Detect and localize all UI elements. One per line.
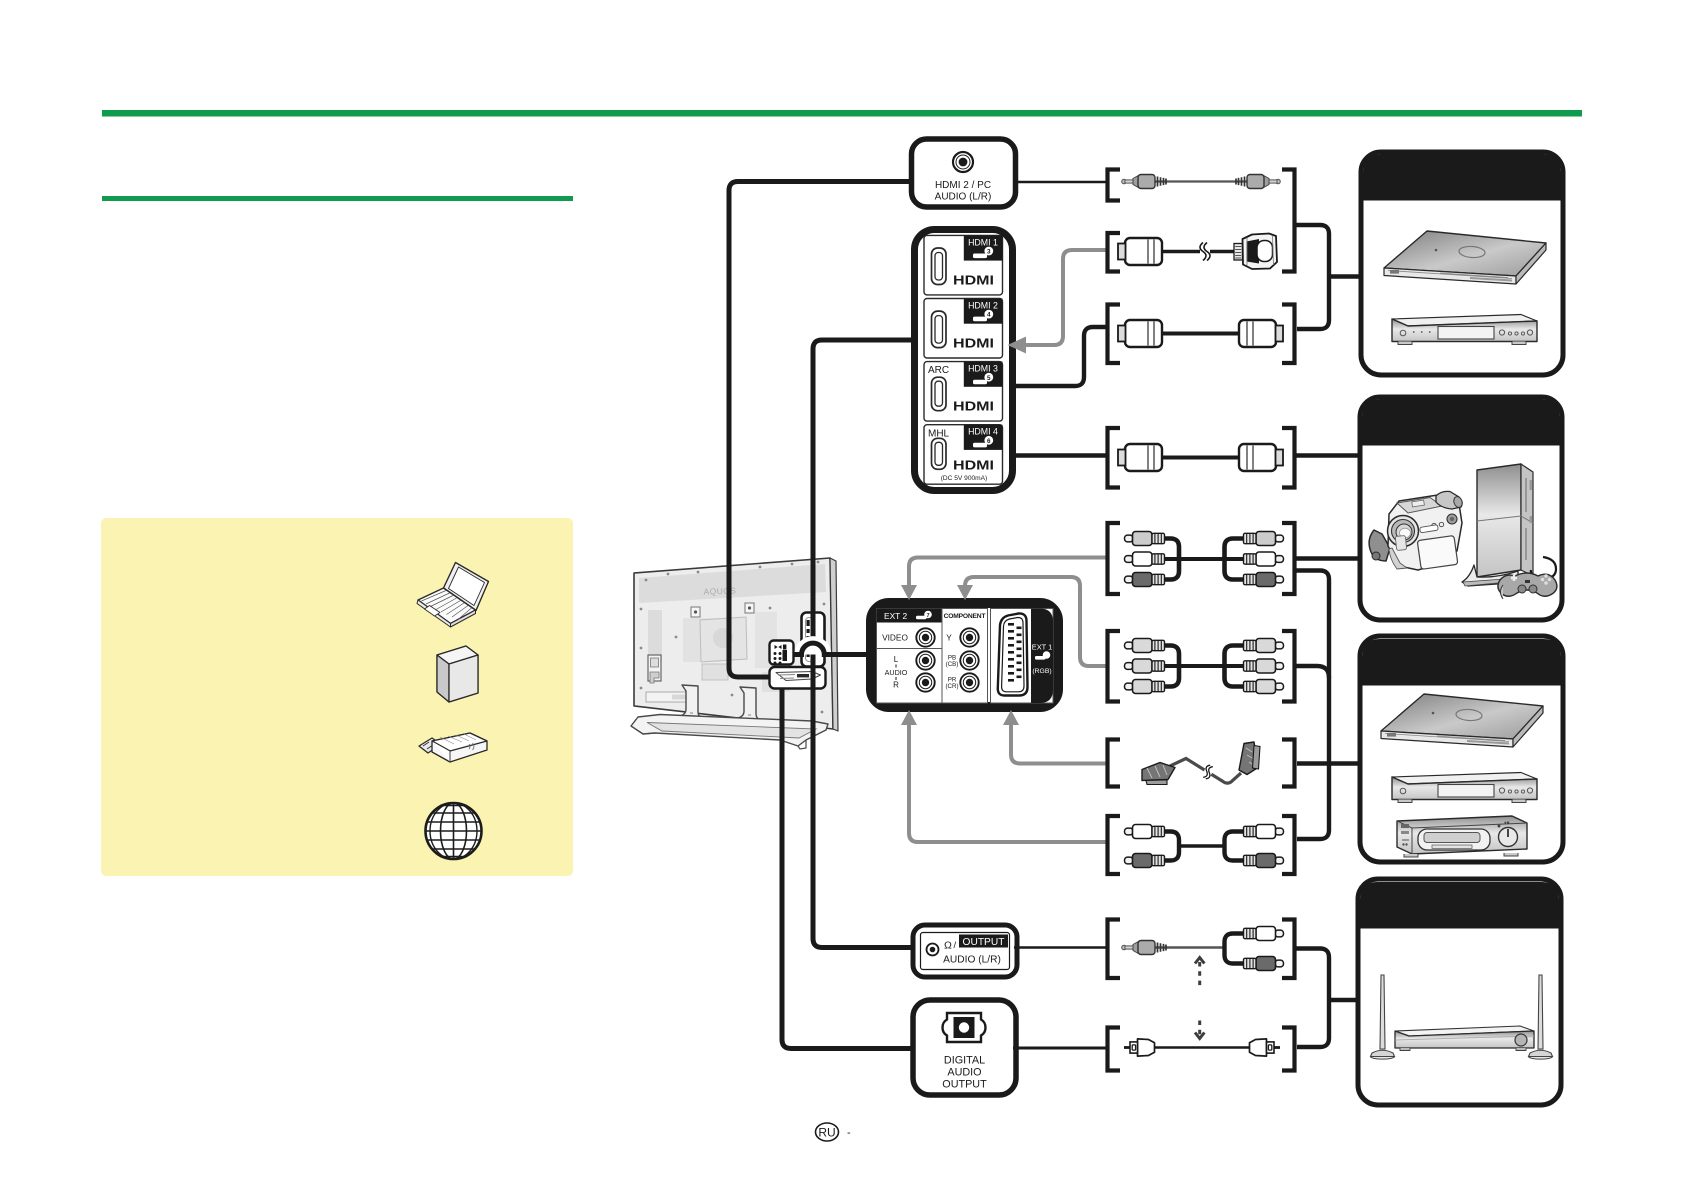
wire HDMI4 to cable 4 <box>1012 453 1107 457</box>
cable7: SCART cable <box>1142 742 1260 785</box>
svg-text:HDMI 2 / PC: HDMI 2 / PC <box>935 180 991 191</box>
bracket cable6 right <box>1282 631 1295 702</box>
gray wire cable6 to COMPONENT arrow <box>965 577 1107 666</box>
device box 2: game console / camcorder <box>1360 397 1562 620</box>
PB jack <box>960 651 978 669</box>
wall mount holes <box>691 607 700 617</box>
bracket cable9 left <box>1108 920 1121 979</box>
cable4: HDMI cable <box>1118 444 1283 471</box>
cable6: component video cable <box>1125 639 1284 694</box>
bracket cable4 right <box>1282 428 1295 488</box>
svg-text:AUDIO: AUDIO <box>885 668 908 677</box>
note box (yellow) <box>101 518 573 876</box>
green section rule <box>102 196 573 201</box>
game console <box>1462 464 1533 586</box>
VIDEO jack <box>916 628 934 646</box>
wire trunk to theatre box <box>1329 998 1358 1002</box>
wire cable6 into trunk <box>1297 666 1330 678</box>
svg-text:AUDIO (L/R): AUDIO (L/R) <box>935 192 992 203</box>
svg-text:L: L <box>894 655 899 664</box>
svg-text:VIDEO: VIDEO <box>882 633 908 643</box>
HDMI 2 port <box>924 299 1003 359</box>
OUTPUT audio terminal panel <box>913 925 1017 977</box>
AC inlet <box>648 655 661 681</box>
bottom ports callout <box>770 667 826 689</box>
svg-text:HDMI 2: HDMI 2 <box>968 300 998 310</box>
side ports callout <box>802 613 825 667</box>
RU page mark <box>816 1123 852 1141</box>
bracket cable1 left <box>1108 170 1121 201</box>
globe icon <box>426 803 482 859</box>
wire HDMI panel to TV side ports <box>813 340 916 948</box>
DVD player <box>1392 315 1537 345</box>
HDMI 4 (MHL) port <box>924 425 1003 485</box>
gray wire cable5 to EXT2 arrow <box>909 558 1107 586</box>
svg-text:HDMI: HDMI <box>953 336 994 351</box>
svg-text:●■: ●■ <box>1504 820 1510 825</box>
TV rear view <box>631 558 838 749</box>
left speaker <box>1371 975 1395 1059</box>
bracket cable6 left <box>1108 631 1121 702</box>
bracket cable5 left <box>1108 523 1121 594</box>
wire cable4 to game box <box>1297 453 1362 457</box>
game controller <box>1498 557 1557 599</box>
svg-text:HDMI: HDMI <box>953 273 994 288</box>
control buttons callout <box>770 641 794 665</box>
dashed swap arrow between cable9 and cable10 <box>1195 958 1204 1039</box>
bracket cable3 right <box>1282 305 1295 364</box>
gray wire cable8 to EXT2 bottom arrow <box>909 725 1107 842</box>
HDMI terminals panel <box>915 230 1013 491</box>
EXT1 SCART section <box>991 609 1054 704</box>
wire HDMI2/PC to cable 1 <box>1014 181 1107 183</box>
TV back panel <box>634 558 833 729</box>
COMPONENT section <box>942 609 988 704</box>
audio jack <box>953 152 973 172</box>
svg-text:AUDIO (L/R): AUDIO (L/R) <box>943 955 1001 966</box>
cable brackets <box>1108 170 1295 1071</box>
bracket cable5 right <box>1282 523 1295 594</box>
svg-text:EXT 2: EXT 2 <box>884 611 907 621</box>
cable3: HDMI cable <box>1118 320 1283 347</box>
bracket cable2 left <box>1108 233 1121 272</box>
bracket cables1-2 right (tall) <box>1282 170 1295 272</box>
USB adapter icon <box>419 733 487 762</box>
svg-text:HDMI 1: HDMI 1 <box>968 237 998 247</box>
wire DIGITAL to cable 10 <box>1013 1047 1107 1050</box>
SCART connector <box>998 613 1028 695</box>
wire cable7 to recorder box <box>1297 761 1361 765</box>
HDMI 1 port <box>924 235 1003 295</box>
wire HDMI2/PC panel to TV <box>729 182 911 678</box>
svg-text:EXT 1: EXT 1 <box>1032 643 1052 652</box>
wire trunk to player box <box>1329 274 1361 278</box>
arrow into HDMI2 port <box>1008 337 1027 354</box>
wire TV to EXT panel (with jump-over) <box>802 643 825 654</box>
svg-text:ARC: ARC <box>928 365 949 376</box>
EXT2 / COMPONENT / EXT1 panel <box>871 603 1058 707</box>
svg-text:3: 3 <box>987 249 991 256</box>
wire cable5 to game box <box>1297 556 1362 560</box>
trunk cable5-cable8 <box>1297 571 1330 840</box>
svg-text:R: R <box>893 681 899 690</box>
HDMI 3 (ARC) port <box>924 362 1003 422</box>
TV foot right <box>737 687 760 723</box>
laptop icon <box>417 563 489 628</box>
svg-text:(CR): (CR) <box>945 683 958 690</box>
DVD recorder <box>1392 773 1537 803</box>
svg-text:HDMI 4: HDMI 4 <box>968 427 998 437</box>
svg-text:COMPONENT: COMPONENT <box>944 613 987 620</box>
svg-text:HDMI: HDMI <box>953 399 994 414</box>
EXT2 section <box>877 609 943 704</box>
right speaker <box>1529 975 1553 1059</box>
svg-text:Y: Y <box>946 633 952 643</box>
bracket cable10 left <box>1108 1028 1121 1071</box>
PR jack <box>960 673 978 691</box>
camcorder <box>1369 491 1464 570</box>
bracket cable7 left <box>1108 740 1121 787</box>
blu-ray player (angled) <box>1381 694 1543 747</box>
svg-text:4: 4 <box>987 312 991 319</box>
cable5: composite AV cable <box>1125 532 1284 587</box>
svg-text:5: 5 <box>987 375 991 382</box>
wire HDMI3 to cable 3 <box>1012 327 1107 386</box>
svg-text:/: / <box>954 940 957 951</box>
gray wire cable7 to EXT1 arrow <box>1011 725 1107 764</box>
bracket cable3 left <box>1108 305 1121 364</box>
bracket cable8 left <box>1108 816 1121 874</box>
bracket cable10 right <box>1282 1028 1295 1071</box>
svg-text:OUTPUT: OUTPUT <box>942 1079 987 1091</box>
external drive icon <box>437 646 478 702</box>
Y jack <box>960 628 978 646</box>
bracket cable9 right <box>1282 920 1295 979</box>
gray wire cable2 to HDMI2 port <box>1025 250 1107 345</box>
TV stand base <box>631 715 828 747</box>
wire cables 1+2 to trunk and player box <box>1297 225 1330 329</box>
HDMI2/PC AUDIO terminal panel <box>912 139 1016 207</box>
cable9: mini jack to RCA audio cable <box>1122 927 1284 971</box>
device box 1: player <box>1361 152 1563 375</box>
svg-text:HDMI 3: HDMI 3 <box>968 364 998 374</box>
AUDIO L jack <box>916 651 934 669</box>
AV receiver <box>1395 1026 1534 1051</box>
bracket cable4 left <box>1108 428 1121 488</box>
svg-text:(CB): (CB) <box>946 661 959 668</box>
AUDIO R jack <box>916 673 934 691</box>
svg-text:OUTPUT: OUTPUT <box>963 937 1005 948</box>
svg-text:-: - <box>847 1127 851 1139</box>
device box 4: home theatre <box>1358 879 1561 1105</box>
trunk cables 9-10 to theatre box <box>1297 949 1330 1048</box>
wire TV bottom ports to DIGITAL AUDIO OUTPUT <box>782 688 913 1049</box>
svg-text:RU: RU <box>818 1126 835 1140</box>
DIGITAL AUDIO OUTPUT terminal panel <box>913 1000 1016 1095</box>
svg-text:(DC 5V 900mA): (DC 5V 900mA) <box>941 475 988 482</box>
svg-text:HDMI: HDMI <box>953 457 994 472</box>
cable10: optical audio cable <box>1124 1039 1280 1056</box>
VCR <box>1397 816 1527 857</box>
svg-text:(RGB): (RGB) <box>1032 668 1051 675</box>
bracket cable7 right <box>1282 740 1295 787</box>
cable1: stereo mini jack cable <box>1122 175 1281 189</box>
svg-text:DIGITAL: DIGITAL <box>944 1055 985 1067</box>
svg-text:7: 7 <box>926 613 929 619</box>
wire OUTPUT to cable 9 <box>1014 946 1107 949</box>
bottom label strip <box>646 692 694 702</box>
cable8: audio RCA cable <box>1125 825 1284 868</box>
bracket cable8 right <box>1282 816 1295 874</box>
green header rule <box>102 110 1582 117</box>
svg-text:Ω: Ω <box>944 940 952 952</box>
svg-text:6: 6 <box>987 438 991 445</box>
blu-ray player (angled) <box>1384 231 1546 284</box>
svg-text:AUDIO: AUDIO <box>947 1067 981 1079</box>
TV foot left <box>679 685 702 721</box>
screws <box>640 561 826 714</box>
cable2: HDMI-DVI conversion cable <box>1118 234 1277 270</box>
PART:PANELS <box>729 182 916 1049</box>
device box 3: recorder / VCR <box>1360 636 1563 862</box>
optical connector icon <box>943 1013 986 1042</box>
